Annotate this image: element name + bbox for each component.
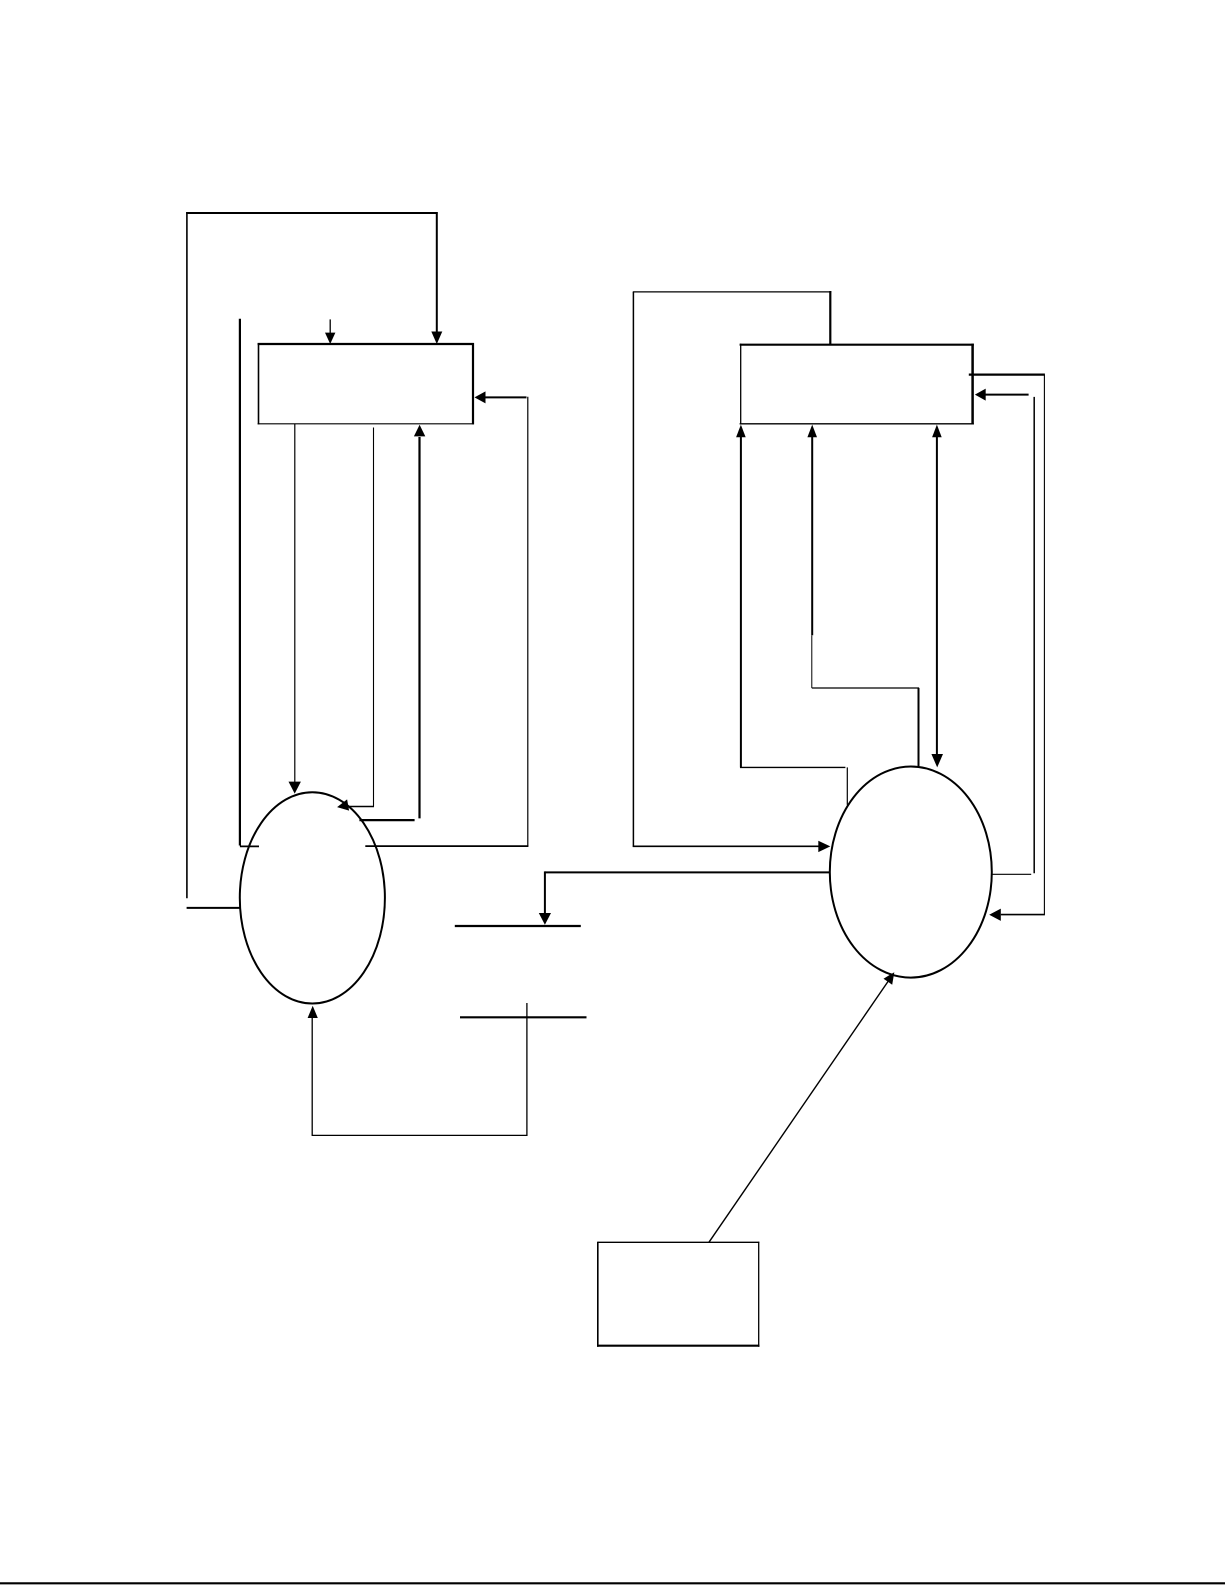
process ellipse P2 (right) (830, 767, 992, 978)
arrowhead up into box B1 bottom (414, 425, 425, 437)
arrowhead up into box B2 bottom (middle) (807, 425, 817, 438)
arrowhead right into right ellipse left edge (818, 841, 830, 852)
wire down from B2 bottom-middle to right ellipse top (811, 437, 813, 635)
data store D2 line (460, 1016, 587, 1018)
wire from right ellipse to data store D1 (545, 871, 829, 873)
arrowhead down into right ellipse top (931, 754, 943, 767)
wire up arrow into left ellipse bottom (308, 1006, 318, 1018)
data store D1 line (455, 925, 581, 927)
wire up-arrow shaft from ellipse edge elbow (418, 437, 420, 818)
wire vertical through data store D2 (526, 1003, 528, 1136)
wire stub into left ellipse (187, 907, 241, 909)
wire vertical x=527.8 up to arrow (527, 397, 529, 847)
footer page line (0, 1582, 1225, 1584)
wire arrow shaft into right ellipse left (633, 845, 820, 847)
arrowhead left into box B1 right edge (475, 391, 486, 403)
box B1 (left rectangle) (258, 343, 474, 424)
wire loop from box B2 top (829, 291, 831, 345)
arrowhead small down into box B1 top (325, 333, 335, 344)
arrowhead up into box B2 bottom (left) (736, 425, 746, 438)
wire arrow shaft into box B1 right edge (485, 396, 527, 398)
wire small arrow shaft into box B1 top (329, 319, 331, 333)
arrowhead up into box B2 bottom (right) (932, 425, 942, 438)
arrowhead down into data store D1 (539, 913, 551, 925)
arrowhead left into right ellipse right edge (989, 909, 1001, 921)
wire stub right of hanging vertical into left ellipse (240, 845, 259, 847)
wire from box B1 bottom down then left (373, 428, 375, 807)
wire outer hook left vertical (186, 212, 188, 898)
arrowhead down into left ellipse top (289, 782, 301, 794)
wire down from B2 bottom-left to right ellipse left (740, 437, 742, 767)
wire from box B1 bottom down to left ellipse top (294, 424, 296, 782)
arrowhead left into box B2 right edge (975, 389, 986, 401)
wire outer hook right vertical (436, 212, 438, 332)
box B2 (right rectangle) (740, 344, 974, 425)
wire hanging vertical x=240 (239, 319, 241, 846)
wire feedback inner: right ellipse to B2 right edge (992, 873, 1031, 875)
wire double arrow B2 bottom to right ellipse top (936, 437, 938, 754)
wire outer hook top horizontal (186, 212, 437, 214)
wire feedback outer: B2 right edge to right ellipse (969, 374, 1045, 376)
wire bottom horizontal of feedback loop (312, 1134, 528, 1136)
arrowhead down into box B1 top (431, 332, 442, 345)
arrowhead left into left ellipse upper right (336, 799, 349, 812)
wire horizontal from left ellipse to vertical x=527.8 (365, 845, 528, 847)
box B3 (bottom rectangle) (597, 1242, 760, 1347)
arrowhead diagonal into right ellipse bottom (884, 972, 895, 985)
process ellipse P1 (left) (240, 792, 385, 1003)
wire diagonal from box B3 to right ellipse bottom (709, 982, 888, 1243)
